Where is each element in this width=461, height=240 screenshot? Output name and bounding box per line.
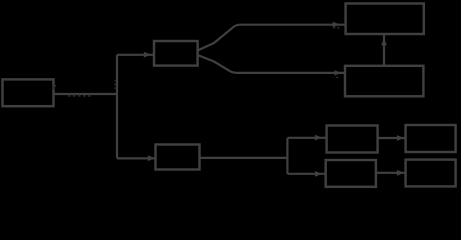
box A (left start node) xyxy=(3,79,54,106)
faint label tick near A xyxy=(52,85,56,89)
faint label marks right of trunk xyxy=(114,81,116,88)
wire trunk to E xyxy=(117,157,156,159)
arrowhead into C (from B) xyxy=(333,22,340,28)
wire splitter to F xyxy=(287,137,326,139)
wire F to G xyxy=(378,137,406,139)
flowchart diagram xyxy=(0,0,461,190)
arrowhead into F xyxy=(315,135,322,141)
wire E to splitter xyxy=(200,157,288,159)
wire splitter to H xyxy=(287,173,325,175)
arrowhead into E xyxy=(148,155,155,161)
wire H to I xyxy=(376,172,405,174)
wire A to trunk xyxy=(54,93,118,95)
wire D to C (vertical arrow up) xyxy=(383,35,385,66)
faint mark under arrowhead near D xyxy=(336,77,339,79)
arrowhead into C (from D, pointing up) xyxy=(381,38,387,45)
faint dashed label under wire A-trunk xyxy=(68,95,93,97)
box F (bottom row 1, col 1) xyxy=(327,126,378,153)
wire B to D (diagonal down then horizontal) xyxy=(198,55,345,73)
wire B to C (curved up then horizontal) xyxy=(198,25,345,51)
box D (right large node) xyxy=(345,66,423,97)
arrowhead into I xyxy=(397,170,404,176)
box E (bottom middle node) xyxy=(156,145,200,170)
box B (top middle node) xyxy=(154,41,198,66)
wire splitter vertical xyxy=(286,138,288,174)
wire trunk to B xyxy=(117,54,153,56)
wire trunk vertical xyxy=(116,55,118,159)
box G (bottom row 1, col 2) xyxy=(406,125,456,152)
arrowhead into G xyxy=(397,135,404,141)
arrowhead into B xyxy=(144,52,151,58)
arrowhead into D (from B) xyxy=(335,70,342,75)
faint marks under arrowhead near C xyxy=(333,27,339,29)
box H (bottom row 2, col 1) xyxy=(326,160,376,187)
box I (bottom row 2, col 2) xyxy=(406,160,456,187)
arrowhead into H xyxy=(315,171,322,177)
box C (top right node) xyxy=(346,4,424,35)
